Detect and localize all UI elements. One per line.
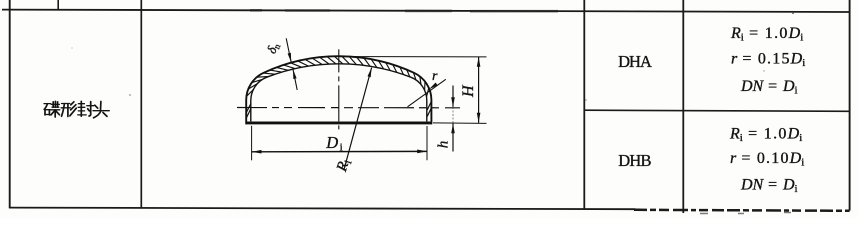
label delta n xyxy=(264,40,283,57)
svg-text:DN = Di: DN = Di xyxy=(740,78,798,97)
thickness dim lower segment xyxy=(293,69,297,90)
svg-text:h: h xyxy=(436,141,452,149)
thickness dim upper segment xyxy=(286,38,291,62)
table bottom border broken part xyxy=(634,210,850,211)
rim level extension line xyxy=(433,122,487,125)
dimension Di extension left xyxy=(251,126,253,161)
scan noise below bottom right xyxy=(700,213,791,214)
svg-text:r: r xyxy=(432,69,438,84)
svg-text:Di: Di xyxy=(325,133,342,154)
arrowhead r xyxy=(429,83,438,90)
svg-text:r = 0.15Di: r = 0.15Di xyxy=(731,51,805,70)
arrowhead thickness upper xyxy=(288,53,292,63)
arrowhead Ri xyxy=(368,68,372,78)
h dim link line xyxy=(452,107,454,123)
column stub above top border xyxy=(57,0,59,10)
svg-text:δn: δn xyxy=(264,40,283,57)
column divider left cell xyxy=(140,0,142,208)
chinese label tou (头) xyxy=(93,102,109,118)
row divider DHA/DHB xyxy=(584,110,849,111)
arrowhead H bottom xyxy=(477,113,481,123)
h dim upper arrow xyxy=(452,86,454,107)
radius leader r xyxy=(408,79,446,107)
svg-text:DN = Di: DN = Di xyxy=(740,177,798,196)
wall section hatching xyxy=(247,56,429,97)
chinese label die (碟) xyxy=(44,101,60,117)
dished head inner shell profile xyxy=(251,64,427,122)
label h xyxy=(436,141,452,149)
svg-text:DHB: DHB xyxy=(618,151,651,170)
tangent dash-dot line xyxy=(237,107,460,109)
arrowhead Di right xyxy=(417,150,427,154)
chinese label xing (形) xyxy=(61,102,76,117)
h dim lower arrow xyxy=(452,124,454,152)
head bottom rim edge xyxy=(246,121,433,124)
vertical centerline xyxy=(338,49,340,129)
radius leader Ri xyxy=(344,68,372,171)
scan noise on top border xyxy=(250,9,558,12)
svg-text:r = 0.10Di: r = 0.10Di xyxy=(730,150,804,169)
svg-text:Ri = 1.0Di: Ri = 1.0Di xyxy=(730,25,803,44)
flange hatching right xyxy=(427,102,431,117)
H top extension line xyxy=(339,56,487,58)
table top border xyxy=(2,10,850,12)
scan specks xyxy=(129,94,131,96)
svg-text:Ri: Ri xyxy=(334,157,355,175)
arrowhead Di left xyxy=(252,150,262,154)
table right border xyxy=(849,0,851,211)
label Ri xyxy=(334,157,355,175)
dimension line Di xyxy=(252,150,427,152)
svg-text:H: H xyxy=(460,84,477,98)
dished head outer shell profile xyxy=(246,56,431,124)
flange hatching left xyxy=(247,104,251,118)
column divider formula column xyxy=(682,0,684,213)
table left border xyxy=(9,0,11,208)
svg-text:DHA: DHA xyxy=(618,52,652,71)
dimension line H xyxy=(478,57,480,123)
arrowhead H top xyxy=(477,57,481,67)
label H xyxy=(460,84,477,98)
svg-text:Ri = 1.0Di: Ri = 1.0Di xyxy=(729,126,802,145)
dimension Di extension right xyxy=(426,126,428,160)
chinese label feng (封) xyxy=(78,101,94,116)
arrowhead thickness lower xyxy=(293,69,297,79)
column divider DHA column xyxy=(583,0,585,209)
table bottom border solid part xyxy=(9,208,640,210)
